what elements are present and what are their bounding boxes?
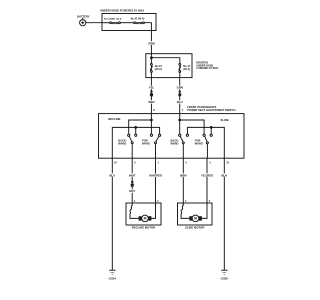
svg-text:YEL: YEL xyxy=(149,86,155,90)
wire YEL/RED from pin 2 xyxy=(206,158,208,203)
ground symbol G554 xyxy=(109,270,115,274)
slide power branch to pole 4 xyxy=(180,120,204,134)
BRN wire label xyxy=(180,173,187,177)
svg-text:BLU: BLU xyxy=(177,100,183,104)
svg-text:WHT: WHT xyxy=(129,173,136,177)
ground symbol G555 xyxy=(221,270,227,274)
GRN wire label xyxy=(148,41,155,45)
slide power junction xyxy=(179,119,181,121)
wires from fuses to box bottom xyxy=(150,73,152,78)
recline ground bus tap xyxy=(135,127,137,129)
pole 2 contacts xyxy=(150,134,152,136)
pole 2 pivot xyxy=(155,142,157,144)
fuse No.13 (20A) xyxy=(150,64,152,73)
svg-text:BLU: BLU xyxy=(109,173,115,177)
BLU wire label xyxy=(109,173,115,177)
fuse No.6 (BAT) 100A xyxy=(110,22,121,24)
GRN wire label 2 xyxy=(176,86,183,90)
svg-text:SLIDE: SLIDE xyxy=(221,118,229,122)
battery xyxy=(80,18,86,26)
recline motor brushes xyxy=(139,216,142,220)
pole 4 output wire to pin 2 xyxy=(206,144,208,158)
BLU wire label xyxy=(177,100,183,104)
svg-text:GRN: GRN xyxy=(177,86,183,90)
wire GRN/BLU feed to switch pin 7 xyxy=(179,78,181,114)
svg-text:POWER SEAT ADJUSTMENT SWITCH: POWER SEAT ADJUSTMENT SWITCH xyxy=(187,108,235,112)
pole 3 output wire to pin 3 xyxy=(182,144,184,158)
fuse No.47 (40A) xyxy=(134,22,145,24)
svg-text:10: 10 xyxy=(114,162,117,165)
svg-text:1: 1 xyxy=(134,200,136,203)
svg-text:UNDER-HOOD FUSE/RELAY BOX: UNDER-HOOD FUSE/RELAY BOX xyxy=(100,9,144,13)
svg-text:WHT/RED: WHT/RED xyxy=(149,174,162,178)
pole 2 arm xyxy=(156,136,159,142)
svg-text:(20 A): (20 A) xyxy=(155,67,162,71)
power seat adjustment switch box xyxy=(99,114,245,159)
slide motor brushes xyxy=(189,216,192,220)
slide ground bus tap xyxy=(210,127,212,129)
GRY wire label xyxy=(129,189,136,193)
WHT/RED wire label xyxy=(149,174,162,178)
junction node in under-dash box xyxy=(151,57,153,59)
wire BRN from pin 3 xyxy=(182,158,184,203)
inline connector on recline motor wire xyxy=(131,181,134,187)
svg-text:WARD: WARD xyxy=(118,142,126,146)
svg-text:BRN: BRN xyxy=(180,173,186,177)
wire from fuse No.47 to box exit xyxy=(145,23,152,31)
slide ground drop to pole 4 xyxy=(210,127,212,134)
slide motor right lead xyxy=(202,203,207,218)
recline power junction xyxy=(151,119,153,121)
wire GRN vertical to under-dash box xyxy=(150,31,152,54)
slide ground bus to pin 12 xyxy=(187,127,224,158)
pole 1 arm xyxy=(129,136,132,142)
svg-text:No.47 (40 A): No.47 (40 A) xyxy=(131,17,145,20)
svg-text:7: 7 xyxy=(182,109,184,112)
ground wire BLU from pin 10 xyxy=(111,158,113,270)
pole 3 arm xyxy=(180,136,183,142)
svg-text:M: M xyxy=(194,217,197,221)
svg-text:RECLINE MOTOR: RECLINE MOTOR xyxy=(132,226,155,230)
wire WHT/RED from pin 1 xyxy=(155,158,157,203)
recline motor M symbol xyxy=(142,215,149,222)
pole 4 arm xyxy=(205,136,208,142)
pole 3 contacts xyxy=(179,134,181,136)
pole 1 pivot xyxy=(131,142,133,144)
svg-text:5: 5 xyxy=(134,162,136,165)
fuse No.17 (20A) xyxy=(179,64,181,73)
recline power feed wire inside switch xyxy=(150,114,152,135)
svg-text:WARD: WARD xyxy=(195,142,203,146)
WHT wire label xyxy=(129,173,136,177)
svg-text:(20 A): (20 A) xyxy=(183,67,190,71)
YEL/RED wire label xyxy=(201,173,213,177)
wire inside box to fuse No.6 xyxy=(102,22,109,24)
svg-text:GRN: GRN xyxy=(148,41,154,45)
recline motor box xyxy=(126,203,161,225)
recline ground bus from pin 10 xyxy=(112,127,159,158)
svg-text:YEL/RED: YEL/RED xyxy=(201,173,213,177)
wire into under-dash box xyxy=(150,54,152,64)
inline connector on right feed wire xyxy=(178,91,181,96)
wire between fuses xyxy=(121,22,134,24)
svg-text:2: 2 xyxy=(209,200,211,203)
svg-text:BLK: BLK xyxy=(221,173,228,177)
svg-text:No.6 (BAT) 100 A: No.6 (BAT) 100 A xyxy=(104,17,122,20)
svg-text:WARD: WARD xyxy=(142,142,150,146)
wire battery to under-hood box xyxy=(86,22,102,24)
svg-text:G555: G555 xyxy=(221,276,229,280)
svg-text:2: 2 xyxy=(157,200,159,203)
slide motor circuit breaker xyxy=(181,203,189,218)
svg-text:SLIDE MOTOR: SLIDE MOTOR xyxy=(185,226,204,230)
slide motor box xyxy=(178,203,213,225)
slide motor M symbol xyxy=(192,215,199,222)
svg-text:12: 12 xyxy=(226,162,229,165)
RED wire label xyxy=(148,100,155,104)
YEL wire label xyxy=(148,86,155,90)
svg-text:RED: RED xyxy=(148,100,154,104)
svg-text:BATTERY: BATTERY xyxy=(77,14,90,18)
svg-text:RECLINE: RECLINE xyxy=(108,117,120,121)
pole 1 output wire to pin 5 xyxy=(131,144,133,158)
recline motor circuit breaker xyxy=(130,203,139,218)
svg-text:FUSE/RELAY BOX: FUSE/RELAY BOX xyxy=(196,67,218,70)
svg-text:WARD: WARD xyxy=(171,142,179,146)
branch wire to fuse No.17 xyxy=(151,58,179,64)
wire YEL/RED feed to switch pin 8 xyxy=(150,78,152,114)
svg-text:2: 2 xyxy=(209,162,211,165)
svg-text:M: M xyxy=(144,217,147,221)
recline power branch to pole 1 xyxy=(129,120,152,134)
inline connector on left feed wire xyxy=(150,91,153,97)
BLK wire label xyxy=(221,173,228,177)
pole 3 pivot xyxy=(182,142,184,144)
slide power feed wire inside switch xyxy=(179,114,181,135)
svg-text:3: 3 xyxy=(185,162,187,165)
svg-text:1: 1 xyxy=(185,200,187,203)
svg-text:8: 8 xyxy=(153,109,155,112)
svg-text:G554: G554 xyxy=(109,276,117,280)
under-hood fuse/relay box xyxy=(102,14,156,31)
pole 4 pivot xyxy=(206,142,208,144)
ground wire BLK from pin 12 xyxy=(223,158,225,270)
driver's under-dash fuse/relay box xyxy=(146,54,192,78)
pole 2 output wire to pin 1 xyxy=(155,144,157,158)
pole 4 contacts xyxy=(203,134,205,136)
svg-text:1: 1 xyxy=(158,162,160,165)
svg-text:GRY: GRY xyxy=(129,189,135,193)
recline ground drop to pole 1 xyxy=(135,127,137,134)
wire WHT from pin 5 xyxy=(131,158,133,203)
pole 1 contacts xyxy=(128,134,130,136)
recline motor right lead xyxy=(151,203,155,218)
